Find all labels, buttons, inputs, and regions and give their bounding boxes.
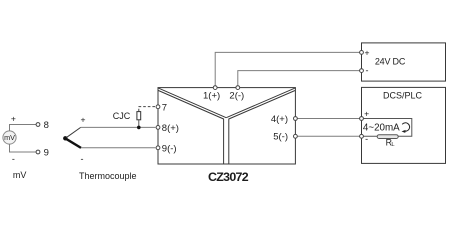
terminal + (24V DC) (360, 51, 364, 55)
DCS/PLC box (362, 87, 446, 163)
terminal 8(+) (156, 126, 160, 130)
svg-text:24V DC: 24V DC (375, 57, 406, 67)
svg-text:Thermocouple: Thermocouple (79, 171, 137, 181)
terminal 9 (mV lead end) (36, 150, 40, 154)
mV source V1 (3, 131, 16, 144)
terminal 5(-) (294, 134, 298, 138)
svg-text:8: 8 (44, 120, 49, 131)
isolation Y lower-right line (229, 91, 295, 165)
terminal 1(+) (213, 86, 217, 90)
svg-text:+: + (364, 48, 369, 58)
thermocouple TC1 plus leg (65, 127, 80, 138)
terminal 2(-) (236, 86, 240, 90)
svg-text:5(-): 5(-) (273, 132, 288, 143)
wire thermocouple minus to terminal 9(-) (81, 147, 155, 149)
svg-text:-: - (365, 134, 368, 144)
wire terminal 1(+) to 24V DC plus (215, 52, 359, 85)
wire terminal 2(-) to 24V DC minus (238, 71, 360, 86)
CJC sensor (137, 112, 141, 120)
terminal - (DCS/PLC) (360, 134, 364, 138)
terminal 7 (156, 105, 160, 109)
svg-text:4~20mA: 4~20mA (363, 123, 400, 134)
svg-text:-: - (81, 154, 84, 164)
wire CJC to node on 8(+) line (138, 120, 140, 128)
loop direction arrow (402, 123, 409, 131)
wire mV minus lead (10, 144, 37, 152)
svg-text:-: - (12, 154, 15, 164)
thermocouple TC1 minus leg (thick) (65, 138, 81, 148)
svg-text:2(-): 2(-) (229, 91, 244, 102)
transmitter U1 CZ3072 body (158, 88, 295, 164)
terminal + (DCS/PLC) (360, 117, 364, 121)
svg-text:mV: mV (4, 133, 15, 142)
resistor RL (377, 135, 398, 139)
svg-text:9(-): 9(-) (162, 143, 177, 154)
svg-text:-: - (366, 66, 369, 76)
svg-text:1(+): 1(+) (203, 91, 220, 102)
isolation Y upper-right line (226, 88, 295, 118)
svg-text:9: 9 (44, 148, 49, 159)
thermocouple TC1 junction dot (63, 136, 67, 140)
svg-text:+: + (80, 114, 85, 124)
isolation Y upper-left line (158, 88, 226, 118)
svg-text:CZ3072: CZ3072 (208, 170, 249, 184)
power supply 24V DC box (362, 43, 446, 81)
current loop 4~20mA box (364, 119, 412, 137)
terminal 4(+) (294, 117, 298, 121)
svg-text:8(+): 8(+) (162, 123, 179, 134)
wire terminal 4(+) to DCS plus (297, 118, 359, 120)
wire thermocouple plus to terminal 8(+) (81, 126, 156, 128)
svg-text:+: + (364, 108, 369, 118)
svg-text:mV: mV (13, 170, 27, 180)
isolation Y lower-left line (158, 91, 223, 165)
dashed wire CJC to terminal 7 (139, 107, 156, 112)
svg-text:7: 7 (162, 102, 167, 113)
svg-text:4(+): 4(+) (271, 114, 288, 125)
svg-text:CJC: CJC (113, 111, 131, 121)
wire mV plus lead (10, 125, 37, 131)
svg-text:+: + (11, 113, 16, 123)
wire terminal 5(-) to DCS minus (297, 135, 359, 137)
terminal 9(-) (156, 146, 160, 150)
terminal - (24V DC) (360, 69, 364, 73)
junction node CJC/8(+) (137, 126, 141, 130)
svg-text:DCS/PLC: DCS/PLC (383, 90, 423, 100)
terminal 8 (mV lead end) (36, 123, 40, 127)
